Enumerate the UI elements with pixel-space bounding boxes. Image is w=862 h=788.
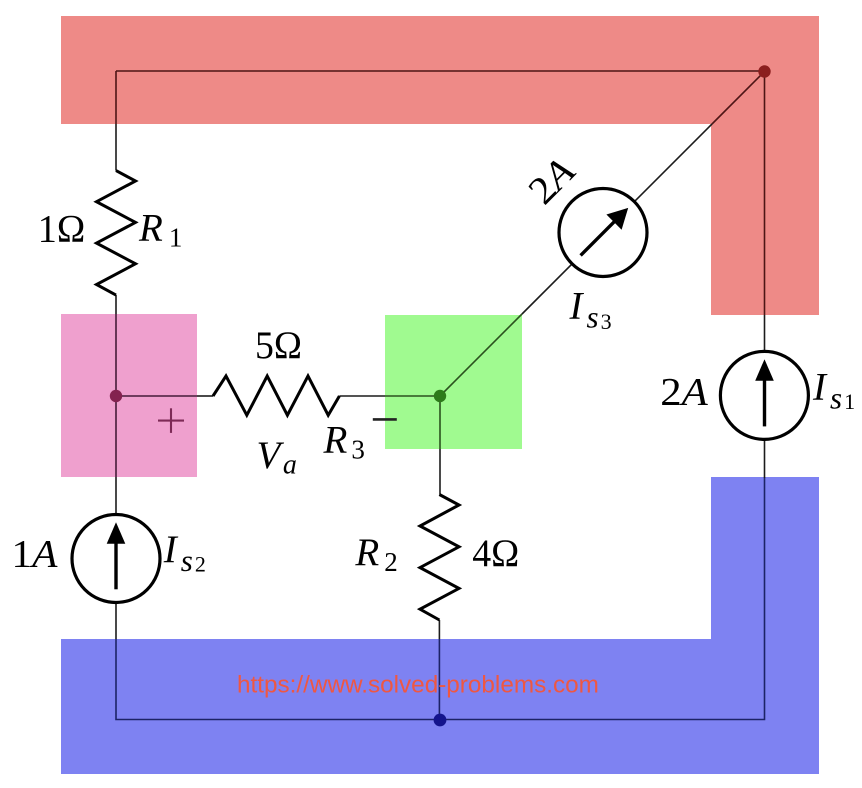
- svg-text:Is1: Is1: [812, 366, 855, 416]
- svg-text:R3: R3: [323, 418, 365, 464]
- svg-text:Is2: Is2: [163, 528, 206, 578]
- svg-text:5Ω: 5Ω: [255, 324, 302, 367]
- svg-text:R1: R1: [138, 207, 182, 253]
- svg-text:Is3: Is3: [569, 285, 612, 335]
- svg-text:4Ω: 4Ω: [472, 532, 519, 575]
- svg-text:Va: Va: [257, 434, 297, 481]
- svg-text:1Ω: 1Ω: [38, 207, 86, 250]
- svg-text:2A: 2A: [660, 370, 708, 413]
- svg-text:R2: R2: [354, 531, 397, 577]
- svg-text:1A: 1A: [12, 532, 58, 575]
- svg-text:https://www.solved-problems.co: https://www.solved-problems.com: [237, 672, 599, 699]
